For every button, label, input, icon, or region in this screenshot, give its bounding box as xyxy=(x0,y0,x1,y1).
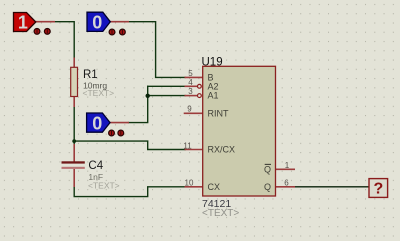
svg-text:Q: Q xyxy=(264,182,271,192)
svg-text:Q: Q xyxy=(264,164,271,174)
svg-text:C4: C4 xyxy=(88,160,103,172)
svg-text:1: 1 xyxy=(285,161,290,170)
svg-text:<TEXT>: <TEXT> xyxy=(202,208,239,219)
svg-text:6: 6 xyxy=(284,178,289,187)
svg-text:3: 3 xyxy=(188,87,193,96)
svg-text:5: 5 xyxy=(188,69,193,78)
svg-text:0: 0 xyxy=(92,113,102,133)
svg-text:9: 9 xyxy=(187,105,192,114)
svg-text:1: 1 xyxy=(18,13,28,33)
svg-text:<TEXT>: <TEXT> xyxy=(88,181,120,191)
svg-text:?: ? xyxy=(374,181,384,198)
svg-text:4: 4 xyxy=(188,78,193,87)
svg-text:CX: CX xyxy=(208,182,221,192)
svg-text:0: 0 xyxy=(92,13,102,33)
svg-text:A1: A1 xyxy=(208,91,219,101)
svg-text:<TEXT>: <TEXT> xyxy=(83,88,115,98)
svg-text:R1: R1 xyxy=(83,69,98,81)
svg-text:RINT: RINT xyxy=(208,108,229,118)
svg-text:RX/CX: RX/CX xyxy=(208,145,236,155)
svg-text:10: 10 xyxy=(185,178,194,187)
svg-text:11: 11 xyxy=(183,141,192,150)
svg-text:U19: U19 xyxy=(202,57,223,69)
